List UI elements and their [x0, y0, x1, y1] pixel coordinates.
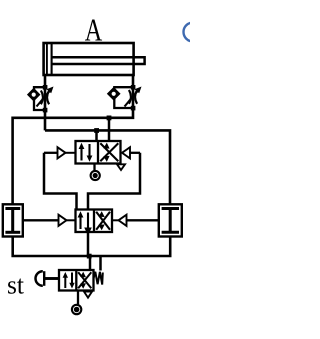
valve V1 body (4/2 pilot valve) [76, 141, 121, 164]
V2 left pilot [24, 215, 76, 226]
V1 right pilot [122, 147, 140, 158]
V2 left square flow arrows [78, 211, 92, 235]
label A [85, 12, 103, 48]
svg-text:st: st [7, 271, 25, 300]
wire stub: line1 junction down to valve V1 right top port [107, 116, 112, 142]
wire stub: line2 junction down to valve V1 left top port [94, 128, 99, 141]
wire: cylinder right port down through FC2, left along line1, down left frame to limit element L [13, 75, 133, 204]
V2 right square crossed arrows [96, 211, 110, 230]
limit element R (right) [159, 204, 182, 236]
FC2 throttle arcs [129, 90, 137, 104]
V2 right pilot [112, 215, 159, 226]
annotation blue circle (clipped at right edge) [184, 23, 203, 42]
ST push button actuator [36, 271, 59, 286]
FC2 adjustment arrow [125, 87, 142, 107]
V1 exhaust triangle [117, 164, 125, 170]
wire: V2 bottom port to supply rail [87, 232, 90, 256]
cylinder A body [44, 43, 134, 75]
FC2 check valve (diamond + ball) [108, 88, 119, 99]
flow control valve FC1 bypass branch [34, 87, 45, 110]
ST exhaust triangle [84, 292, 92, 298]
FC1 adjustment arrow [37, 87, 54, 107]
wire line2: from FC1 across to right drop, down to limit element R [45, 130, 170, 204]
V1 left pilot [44, 147, 76, 158]
valve ST body (3/2 manual start valve) [59, 270, 94, 291]
supply rail wire [13, 237, 171, 259]
wire: cylinder left port down through throttle to lower network [44, 75, 47, 130]
FC1 junction dots [43, 85, 48, 112]
wire: V1 left pilot to V2 left top port [44, 153, 77, 210]
cylinder piston (double line) [47, 43, 52, 75]
wire stubs: rail down to valve ST [90, 256, 101, 271]
V1 exhaust port circle [91, 164, 100, 181]
FC2 junction dots [131, 85, 136, 110]
FC1 check valve (diamond + ball) [28, 89, 39, 100]
V1 left square flow arrows [79, 143, 93, 162]
ST left square flow arrows [63, 272, 75, 289]
label st [7, 271, 25, 300]
ST return spring [94, 272, 103, 285]
wire: V1 right pilot to V2 right top port [88, 153, 140, 210]
V1 right square crossed arrows [100, 143, 118, 162]
flow control valve FC2 bypass branch [114, 87, 133, 108]
ST exhaust port circle [72, 291, 81, 315]
ST right square crossed arrows [78, 272, 91, 289]
limit element L (left, on frame line) [3, 204, 23, 236]
cylinder piston rod [53, 57, 145, 64]
valve V2 body (4/2 pilot valve) [76, 210, 113, 233]
FC1 throttle arcs [41, 91, 49, 105]
